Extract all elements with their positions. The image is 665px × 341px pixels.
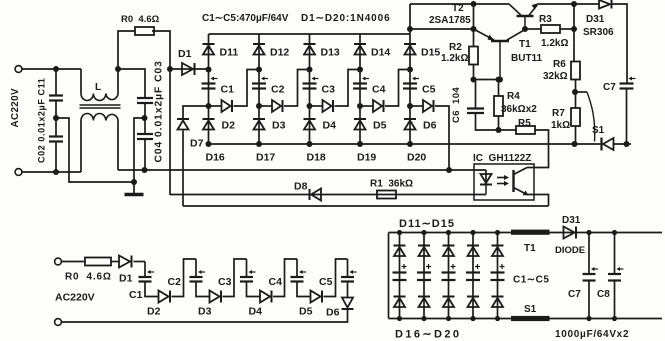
svg-text:C1: C1 — [221, 84, 235, 96]
svg-text:D18: D18 — [307, 152, 326, 164]
wire: C5 bottom lead to D6 (sub1) — [347, 282, 349, 298]
svg-text:D5: D5 — [373, 120, 387, 132]
wire: R2 bottom lead — [473, 65, 475, 80]
node: R0 left junction on AC line — [115, 66, 121, 72]
wire: sub2 column 3 — [448, 233, 450, 319]
wire: D8/R1 line to optocoupler LED cathode — [170, 194, 486, 196]
wire: D6 output drop to line A — [435, 106, 449, 170]
svg-text:AC220V: AC220V — [55, 292, 95, 304]
capacitor C4 (sub1) — [291, 270, 307, 282]
svg-text:D8: D8 — [294, 181, 308, 193]
svg-text:D1∼D20:1N4006: D1∼D20:1N4006 — [301, 13, 391, 24]
svg-text:S1: S1 — [592, 125, 605, 136]
diode D17 (sub2) — [418, 297, 430, 308]
svg-text:D31: D31 — [586, 14, 605, 25]
diode D3 — [272, 100, 283, 112]
wire: R0 to D1 (sub1) — [111, 261, 119, 263]
node: column 3 upper node — [307, 67, 313, 73]
wire: R5 line — [499, 129, 517, 131]
node: C02 bottom junction — [53, 169, 59, 175]
svg-text:C2: C2 — [168, 276, 182, 288]
diode D12 (sub2) — [418, 246, 430, 257]
node: R7 bottom junction on output line — [572, 141, 578, 147]
svg-text:C7: C7 — [568, 289, 581, 300]
svg-text:T1: T1 — [524, 243, 536, 254]
svg-text:BUT11: BUT11 — [511, 53, 543, 64]
diode D12 — [253, 44, 265, 55]
svg-text:D1: D1 — [119, 273, 133, 285]
node: D6 drop junction on line A — [446, 167, 452, 173]
diode D6 (sub1) — [342, 298, 353, 308]
resistor R5 — [516, 126, 535, 134]
svg-text:1.2kΩ: 1.2kΩ — [541, 38, 568, 49]
wire: sub2 column 5 — [497, 233, 499, 319]
svg-text:R7: R7 — [552, 108, 565, 119]
capacitor C6 (rotated label 104) — [475, 80, 477, 109]
resistor R0 — [135, 27, 154, 35]
node: column 3 lower node — [307, 103, 313, 109]
wire: C1 bottom lead and diode run (sub1) — [145, 282, 159, 297]
node: column 3 bottom bus junction — [307, 141, 313, 147]
wire: riser 4 (sub1) — [324, 259, 348, 297]
wire: top rail right segment — [538, 3, 600, 5]
node: riser/T2-line junction — [407, 26, 413, 32]
wire: R7 leads — [575, 92, 577, 108]
wire: sub2 column 2 — [423, 233, 425, 319]
diode D18 — [304, 119, 316, 130]
switch bar S1 (sub2) — [511, 316, 550, 321]
wire: output line after S1 — [614, 143, 632, 145]
wire: D7 drop to bottom return line — [182, 131, 184, 207]
svg-text:R2: R2 — [449, 42, 462, 53]
diode D110 (sub2) — [492, 297, 504, 308]
diode D15 (sub2) — [492, 246, 504, 257]
wire: C3 bottom lead and diode run (sub1) — [247, 282, 261, 297]
terminal: AC220V input bottom — [15, 169, 22, 176]
diode D4 — [323, 100, 334, 112]
svg-text:D3: D3 — [198, 306, 212, 318]
wire: stage 3 riser to next column — [335, 70, 361, 107]
wire: sub2 top line — [389, 232, 663, 234]
resistor R3 — [541, 25, 560, 33]
wire: stage 4 diode run and riser — [360, 105, 373, 107]
svg-text:C3: C3 — [218, 276, 232, 288]
wire: riser 1 (sub1) — [172, 259, 197, 297]
wire: choke bottom-left lead — [80, 121, 82, 173]
node: T2 base junction — [497, 77, 503, 83]
svg-text:C6 104: C6 104 — [451, 87, 462, 123]
resistor R2 — [469, 47, 478, 65]
svg-text:T1: T1 — [519, 39, 531, 50]
wire: choke top-left lead — [80, 69, 82, 94]
diode D7 top wire — [183, 106, 209, 119]
svg-text:S1: S1 — [524, 304, 537, 315]
svg-text:C4: C4 — [372, 84, 386, 96]
diode D13 — [304, 44, 316, 55]
terminal: AC220V input top — [15, 66, 22, 73]
wire: rail after D31 down to C7 — [613, 4, 628, 84]
wire: C4 top lead (sub1) — [296, 259, 298, 277]
capacitor C11 — [49, 96, 63, 101]
node: column 2 lower node — [256, 103, 262, 109]
capacitor C5 — [403, 77, 419, 89]
svg-text:D3: D3 — [272, 120, 286, 132]
wire: AC bottom line from input terminal N — [22, 171, 81, 173]
capacitor C6 — [467, 109, 484, 114]
resistor R0 right wire and long drop to D8 line — [152, 31, 170, 195]
diode D31 (sub2) — [564, 227, 577, 239]
wire: S1 gate curve from R6/R7 node — [575, 91, 587, 93]
inductor L bottom winding — [81, 114, 118, 121]
capacitor C8 leads (sub2) — [614, 233, 616, 275]
node: rail junction to R6 column — [571, 1, 577, 7]
svg-text:C3: C3 — [322, 84, 336, 96]
svg-text:D15: D15 — [421, 47, 440, 59]
svg-text:D19: D19 — [357, 152, 376, 164]
capacitor C7 leads (sub2) — [588, 233, 590, 275]
svg-text:D31: D31 — [562, 215, 581, 226]
svg-text:C1∼C5:470µF/64V: C1∼C5:470µF/64V — [202, 13, 289, 24]
wire: D1 line — [170, 68, 209, 70]
svg-text:C4: C4 — [269, 276, 283, 288]
diode D3 (sub1) — [210, 291, 222, 303]
svg-text:1.2kΩ: 1.2kΩ — [441, 53, 468, 64]
wire: D1 to C1 corner (sub1) — [134, 261, 146, 263]
svg-text:D2: D2 — [147, 306, 161, 318]
wire: ladder column 2 — [258, 34, 260, 144]
svg-text:R0 4.6Ω: R0 4.6Ω — [65, 272, 112, 283]
svg-text:AC220V: AC220V — [10, 88, 21, 127]
node: sub2 column 2 top — [421, 230, 426, 235]
node: sub2 column 5 top — [495, 230, 500, 235]
node: column 4 upper node — [357, 67, 363, 73]
wire: C02 bottom lead — [55, 142, 57, 173]
transistor T2 (2SA1785) — [491, 40, 509, 43]
svg-text:C04 0.01x2µF C03: C04 0.01x2µF C03 — [154, 60, 165, 162]
node: sub2 column 1 top — [397, 230, 402, 235]
terminal: sub1 AC bottom — [55, 319, 62, 326]
wire: R2/R4 node line — [474, 79, 501, 81]
wire: AC top line from input terminal L — [22, 68, 81, 70]
capacitor C4 (sub2) — [466, 273, 480, 281]
wire: riser 3 (sub1) — [273, 259, 297, 297]
optocoupler phototransistor — [512, 170, 514, 192]
wire: rail drop to R2 and T2 emitter node — [473, 4, 475, 47]
svg-text:R0 4.6Ω: R0 4.6Ω — [121, 14, 160, 25]
wire: riser 2 (sub1) — [223, 259, 247, 297]
wire: C1 top lead (sub1) — [144, 262, 146, 278]
transistor T1 (BUT11) — [517, 15, 534, 18]
inductor L common-mode choke top winding — [81, 94, 118, 101]
svg-text:D4: D4 — [249, 306, 263, 318]
wire: sub2 column 4 — [472, 233, 474, 319]
node: column 2 upper node — [256, 67, 262, 73]
diode D15 — [404, 44, 416, 55]
svg-text:R6: R6 — [553, 59, 566, 70]
wire: AC line to C03 branch — [118, 69, 145, 98]
node: R3 right junction — [571, 26, 577, 32]
wire: ladder column 4 — [359, 34, 361, 144]
optocoupler LED — [485, 170, 487, 185]
diode D11 (sub2) — [394, 246, 406, 257]
node: R0 right junction (rectifier input node) — [167, 66, 173, 72]
wire: choke top-right lead — [117, 69, 119, 94]
wire: column 5 riser to top rail — [409, 4, 411, 34]
svg-text:D20: D20 — [407, 152, 426, 164]
node: column 5 lower node — [407, 103, 413, 109]
diode D13 (sub2) — [443, 246, 455, 257]
svg-text:D4: D4 — [323, 120, 337, 132]
node: R6/R7 junction — [572, 89, 578, 95]
svg-text:1000µF/64Vx2: 1000µF/64Vx2 — [555, 329, 629, 340]
node: column 1 upper node — [206, 67, 212, 73]
wire: rail drop to R3 node and R6 — [573, 4, 575, 62]
diode D17 — [253, 119, 265, 130]
wire: C11-C02 midpoint lead — [55, 101, 57, 137]
capacitor C3 (sub2) — [442, 273, 456, 281]
svg-text:C2: C2 — [271, 84, 285, 96]
node: sub2 C8 bottom — [612, 316, 617, 321]
svg-text:R3: R3 — [539, 14, 552, 25]
capacitor C7 top lead — [626, 89, 628, 145]
svg-text:C1: C1 — [129, 289, 143, 301]
capacitor C1 — [202, 77, 218, 89]
node: sub2 column 3 top — [446, 230, 451, 235]
resistor R0 left drop — [118, 31, 135, 69]
capacitor C8 (sub2) — [608, 267, 624, 281]
capacitor C5 (sub1) — [341, 270, 357, 282]
node: C03/C04 midpoint — [142, 115, 148, 121]
wire: C6 bottom to R5 line — [476, 113, 497, 130]
svg-text:R5: R5 — [518, 118, 531, 129]
capacitor C3 (sub1) — [240, 270, 256, 282]
wire: C03/C04 midpoint to ground branch — [134, 118, 145, 182]
wire: T1 base line to R3 — [525, 28, 541, 30]
svg-text:L: L — [95, 82, 101, 93]
svg-text:D13: D13 — [321, 47, 340, 59]
node: sub2 column 5 bottom — [495, 316, 500, 321]
diode D14 (sub2) — [467, 246, 479, 257]
node: rail junction to R2 — [471, 1, 477, 7]
node: C11 top junction — [53, 66, 59, 72]
node: sub2 C7 top — [586, 230, 591, 235]
wire: stage 3 diode run and riser — [310, 105, 323, 107]
diode D1 (sub1) — [119, 256, 132, 268]
diode D19 (sub2) — [467, 297, 479, 308]
diode D1 — [182, 63, 195, 75]
wire: bottom return line (phototransistor emitter) — [183, 205, 549, 207]
node: R2 bottom junction — [471, 77, 477, 83]
node: sub2 column 4 top — [470, 230, 475, 235]
wire: choke bottom-right lead to line A — [117, 121, 119, 171]
wire: stage 4 riser to next column — [385, 70, 411, 107]
capacitor C2 — [252, 77, 268, 89]
svg-text:C1∼C5: C1∼C5 — [513, 275, 549, 286]
wire: sub2 left edge vertical — [388, 233, 390, 319]
capacitor C1 (sub2) — [393, 273, 407, 281]
wire: ladder column 5 — [409, 34, 411, 144]
node: C7 bottom junction — [624, 141, 630, 147]
node: T2 emitter node — [471, 26, 477, 32]
svg-text:D16: D16 — [206, 152, 225, 164]
capacitor C4 — [353, 77, 369, 89]
wire: R3 right lead — [560, 28, 574, 30]
diode D16 — [203, 119, 215, 130]
svg-text:D6: D6 — [326, 307, 340, 319]
diode D31 on rail — [599, 0, 610, 9]
svg-text:C5: C5 — [422, 84, 436, 96]
wire: line A (AC return to optocoupler LED anode) — [118, 169, 486, 171]
node: column 4 bottom bus junction — [357, 141, 363, 147]
resistor R0 (sub1) — [85, 258, 111, 266]
wire: R4 leads — [498, 80, 500, 97]
node: R4 bottom / R5 junction — [496, 127, 502, 133]
svg-text:IC GH1122Z: IC GH1122Z — [473, 153, 531, 164]
svg-text:D17: D17 — [256, 152, 275, 164]
capacitor C5 (sub2) — [491, 273, 505, 281]
wire: stage 1 diode run and riser — [209, 105, 222, 107]
wire: phototransistor emitter out to bottom return — [527, 195, 549, 207]
svg-text:C8: C8 — [597, 289, 610, 300]
node: column 1 bottom bus junction — [206, 141, 212, 147]
wire: stage 1 riser to next column — [234, 70, 260, 107]
wire: C2 bottom lead and diode run (sub1) — [196, 282, 210, 297]
resistor R7 — [571, 108, 580, 126]
wire: phototransistor collector out — [527, 167, 534, 169]
terminal: sub1 AC top — [55, 258, 62, 265]
svg-text:C5: C5 — [319, 276, 333, 288]
thyristor S1 — [600, 138, 602, 151]
svg-text:R1 36kΩ: R1 36kΩ — [370, 179, 413, 190]
svg-text:D11: D11 — [220, 47, 239, 59]
node: column 5 bottom bus junction — [407, 141, 413, 147]
wire: midpoint to ground run — [56, 118, 134, 182]
diode D11 — [203, 44, 215, 55]
svg-text:D2: D2 — [222, 120, 236, 132]
wire: C03 to C04 mid lead — [144, 103, 146, 134]
wire: D6 to bottom line (sub1) — [62, 309, 348, 322]
node: sub2 column 1 bottom — [397, 316, 402, 321]
node: column 4 lower node — [357, 103, 363, 109]
svg-text:D7: D7 — [190, 138, 204, 150]
wire: ladder column 3 — [309, 34, 311, 144]
svg-text:D12: D12 — [270, 47, 289, 59]
wire: R6 bottom lead — [575, 80, 577, 93]
wire: C2 top lead (sub1) — [195, 259, 197, 277]
svg-text:C7: C7 — [603, 82, 616, 93]
diode D20 — [404, 119, 416, 130]
ground symbol — [133, 182, 135, 193]
node: C04 bottom on line A — [142, 167, 148, 173]
diode D16 (sub2) — [394, 297, 406, 308]
svg-text:T2: T2 — [452, 3, 464, 14]
node: sub2 C8 top — [612, 230, 617, 235]
inductor L core lines — [80, 104, 121, 106]
capacitor C2 (sub2) — [417, 273, 431, 281]
wire: stage 2 riser to next column — [284, 70, 310, 107]
diode D2 (sub1) — [159, 291, 171, 303]
node: column 1 lower node — [206, 103, 212, 109]
svg-text:D11∼D15: D11∼D15 — [399, 218, 455, 230]
wire: stage 5 diode run — [410, 105, 423, 107]
node: sub2 column 3 bottom — [446, 316, 451, 321]
wire: R5 right to phototransistor collector drop — [534, 130, 549, 168]
node: C11/C02 midpoint junction — [53, 115, 59, 121]
svg-text:DIODE: DIODE — [555, 245, 585, 256]
svg-text:D14: D14 — [371, 47, 390, 59]
svg-text:2SA1785: 2SA1785 — [429, 15, 471, 26]
capacitor C2 (sub1) — [190, 270, 206, 282]
node: column 5 upper node — [407, 67, 413, 73]
capacitor C04 — [137, 134, 153, 139]
wire: C3 top lead (sub1) — [246, 259, 248, 277]
node: column 2 bottom bus junction — [256, 141, 262, 147]
svg-text:SR306: SR306 — [583, 27, 614, 38]
capacitor C03 — [137, 98, 153, 103]
node: sub2 column 4 bottom — [470, 316, 475, 321]
diode D4 (sub1) — [260, 291, 272, 303]
resistor R1 — [377, 191, 396, 199]
capacitor C7 — [620, 77, 636, 89]
diode D5 (sub1) — [311, 291, 323, 303]
svg-text:D1: D1 — [178, 48, 192, 60]
node: R4 top junction — [496, 77, 502, 83]
diode D7 — [177, 119, 189, 130]
resistor R6 — [571, 62, 580, 80]
diode D14 — [354, 44, 366, 55]
diode D19 — [354, 119, 366, 130]
svg-text:D16∼D20: D16∼D20 — [395, 329, 461, 341]
wire: ladder bottom bus / output negative line — [209, 143, 602, 145]
capacitor C7 (sub2) — [583, 267, 599, 281]
svg-text:1kΩ: 1kΩ — [551, 120, 570, 131]
resistor R4 — [494, 96, 503, 116]
wire: C04 bottom lead — [144, 139, 146, 170]
wire: sub2 bottom line — [389, 318, 663, 320]
svg-text:R4: R4 — [507, 91, 520, 102]
capacitor C11 lead — [55, 69, 57, 96]
diode D5 — [373, 100, 384, 112]
node: sub2 C7 bottom — [586, 316, 591, 321]
node: ground junction — [131, 179, 137, 185]
diode D18 (sub2) — [443, 297, 455, 308]
capacitor C1 (sub1) — [139, 270, 155, 282]
svg-text:D6: D6 — [423, 120, 437, 132]
wire: ladder top bus — [209, 33, 411, 35]
svg-text:C02 0.01x2µF C11: C02 0.01x2µF C11 — [37, 78, 47, 163]
wire: sub2 column 1 — [399, 233, 401, 319]
capacitor C02 — [49, 137, 63, 142]
wire: C4 bottom lead and diode run (sub1) — [297, 282, 311, 297]
wire: C5 top lead (sub1) — [347, 259, 349, 277]
diode D8 — [310, 189, 322, 201]
diode D2 — [222, 100, 233, 112]
optocoupler IC GH1122Z box — [474, 164, 534, 200]
node: T1 base / T2 collector junction — [522, 26, 528, 32]
diode D6 — [423, 100, 434, 112]
svg-text:D5: D5 — [299, 306, 313, 318]
wire: T2 emitter line y29 — [410, 28, 474, 30]
capacitor C3 — [303, 77, 319, 89]
optocoupler light arrows — [497, 177, 506, 179]
wire: top rail left segment to T1 collector — [410, 3, 509, 5]
svg-text:32kΩ: 32kΩ — [543, 71, 568, 82]
wire: sub1 top line — [62, 261, 86, 263]
wire: ladder column 1 — [208, 34, 210, 144]
node: sub2 column 2 bottom — [421, 316, 426, 321]
svg-text:36kΩx2: 36kΩx2 — [501, 104, 537, 115]
wire: stage 2 diode run and riser — [259, 105, 272, 107]
